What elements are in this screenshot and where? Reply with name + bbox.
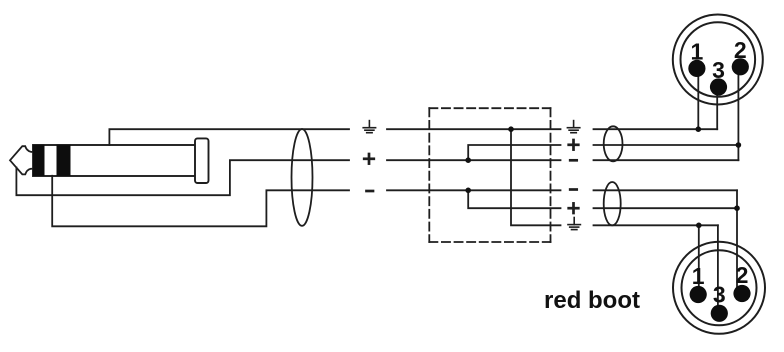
XLR U1 pin 3 [710, 78, 727, 95]
wire: bottom XLR minus run [594, 189, 738, 191]
TRS jack plug J1 body (sleeve) [33, 145, 196, 176]
minus symbol (right top) [570, 159, 577, 162]
XLR U1 pin 2 [732, 58, 749, 75]
junction dot: top XLR pin2 tie [736, 142, 742, 148]
svg-text:2: 2 [736, 262, 749, 288]
wire: ring to minus line [52, 176, 349, 227]
plus symbol (right top) [569, 140, 579, 150]
XLR U2 pin 3 [711, 305, 728, 322]
junction dot: top XLR ground/pin1 [696, 126, 702, 132]
svg-text:2: 2 [734, 37, 747, 63]
ground symbol (left) [363, 121, 375, 133]
svg-text:3: 3 [713, 282, 726, 308]
minus symbol (right bottom) [570, 188, 577, 191]
wire: top XLR plus run [594, 144, 739, 146]
XLR U1 pin 1 [688, 60, 705, 77]
junction dot: bottom XLR pin2 tie [734, 205, 740, 211]
wire: top XLR pin3 drop [716, 87, 718, 129]
wire: bottom XLR pin3 drop [717, 225, 719, 313]
wire: branch plus to top XLR plus [468, 145, 560, 160]
XLR U2 inner shell [682, 250, 757, 325]
patch box (dashed) [429, 108, 550, 242]
wire: sleeve to ground line [109, 129, 349, 145]
XLR U1 inner shell [681, 22, 756, 97]
jack insulator band 2 (black) [57, 145, 71, 176]
cable screen ellipse (right bottom cable) [604, 182, 621, 225]
svg-text:1: 1 [691, 39, 704, 65]
wire: bottom XLR pin2 drop [736, 190, 738, 293]
wire: plus line into patch box (continues to top XLR minus) [387, 159, 561, 161]
wire: tip to plus line [16, 160, 349, 195]
wire: top XLR pin2 drop [737, 67, 739, 160]
XLR connector U2 (bottom) outer shell [673, 242, 765, 334]
wire: branch minus to bottom XLR plus [468, 190, 560, 208]
ground symbol (right bottom) [568, 218, 580, 230]
ground symbol (right top) [567, 121, 579, 133]
XLR U2 pin 1 [690, 286, 707, 303]
wire: bottom XLR pin1 drop [698, 225, 700, 294]
wire: top XLR minus run [594, 159, 739, 161]
wire: minus line into patch box (continues to bottom XLR minus) [387, 189, 561, 191]
wire: top XLR ground run [594, 128, 718, 130]
junction dot: minus split [465, 188, 471, 194]
plus symbol (left) [364, 154, 374, 164]
jack tip contact [10, 146, 33, 174]
svg-text:1: 1 [692, 263, 705, 289]
wire: ground branch to bottom XLR ground [511, 129, 561, 225]
plus symbol (right bottom) [569, 203, 579, 213]
cable screen ellipse (left cable) [292, 129, 313, 226]
XLR U2 pin 2 [733, 285, 750, 302]
junction dot: bottom XLR ground/pin1 [696, 223, 702, 229]
junction dot: ground split [508, 126, 514, 132]
wire: ground line into patch box [387, 128, 561, 130]
svg-text:3: 3 [712, 57, 725, 83]
jack collar (tip terminal) [195, 138, 209, 183]
minus symbol (left) [367, 190, 374, 193]
wire: top XLR pin1 drop [697, 68, 699, 129]
jack insulator band 1 (black) [33, 145, 45, 176]
cable screen ellipse (right top cable) [604, 126, 623, 161]
svg-text:red boot: red boot [544, 287, 640, 314]
junction dot: plus split [465, 157, 471, 163]
wire: bottom XLR ground run [594, 224, 718, 226]
XLR connector U1 (top) outer shell [673, 15, 763, 105]
wire: bottom XLR plus run [594, 207, 738, 209]
